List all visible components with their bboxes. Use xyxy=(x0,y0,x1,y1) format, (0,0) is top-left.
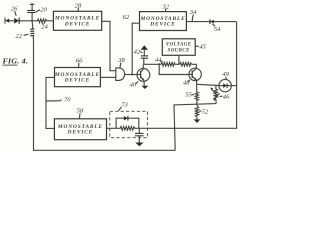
svg-text:VOLTAGE: VOLTAGE xyxy=(166,43,192,48)
transistor Q48 xyxy=(189,68,201,84)
svg-text:70: 70 xyxy=(64,97,71,104)
wire 66 output xyxy=(100,76,115,78)
svg-text:54: 54 xyxy=(214,26,221,33)
monostable device 66 xyxy=(54,68,101,87)
svg-text:62: 62 xyxy=(123,14,130,21)
wire gate output xyxy=(125,74,138,76)
resistor 52 xyxy=(195,105,198,119)
label 20 xyxy=(36,7,48,14)
svg-text:40: 40 xyxy=(130,81,137,88)
diode 54 xyxy=(210,19,214,24)
label 32 xyxy=(161,3,169,11)
svg-text:DEVICE: DEVICE xyxy=(67,130,93,136)
label 24 xyxy=(41,23,48,30)
wire 32 output xyxy=(186,21,236,23)
capacitor 20 xyxy=(27,3,35,21)
wire Q48 base xyxy=(159,64,189,74)
label 40 xyxy=(130,81,139,88)
wire into Q48 collector xyxy=(192,64,197,68)
label 28 xyxy=(75,2,82,11)
and gate 38 xyxy=(116,68,125,81)
node junction xyxy=(31,20,33,22)
svg-text:55: 55 xyxy=(185,92,192,99)
wire xyxy=(175,63,180,65)
wire xyxy=(47,20,54,22)
svg-text:38: 38 xyxy=(117,57,125,64)
voltage source 45 xyxy=(162,39,195,56)
wire node row xyxy=(174,104,217,105)
inductor 22 xyxy=(30,21,34,42)
RC network 73 dashed box xyxy=(110,111,148,137)
svg-text:22: 22 xyxy=(15,33,22,40)
label 48 xyxy=(183,80,190,87)
svg-text:44: 44 xyxy=(155,56,162,63)
supply arrow 42 xyxy=(141,45,148,55)
diode 73 branch xyxy=(116,116,139,128)
wire 66 input xyxy=(46,77,55,128)
label 26 xyxy=(11,6,18,16)
wire collector row 44 xyxy=(144,63,161,65)
label 22 xyxy=(15,33,28,40)
label 46 xyxy=(220,94,230,101)
label 52 xyxy=(199,109,209,116)
svg-text:52: 52 xyxy=(202,109,209,116)
svg-text:DEVICE: DEVICE xyxy=(149,22,175,28)
label 44 xyxy=(155,56,163,63)
svg-text:73: 73 xyxy=(121,101,128,108)
capacitor 42 xyxy=(141,56,148,64)
svg-text:DEVICE: DEVICE xyxy=(64,21,90,27)
monostable device 58 xyxy=(54,119,106,140)
wire xyxy=(9,20,14,22)
label 45 xyxy=(196,44,207,51)
label 42 xyxy=(134,48,143,55)
wire 32 input from node 62 xyxy=(132,23,139,74)
resistor 24 xyxy=(37,19,46,23)
node junction xyxy=(158,63,160,65)
monostable device 28 xyxy=(53,11,101,30)
ground xyxy=(194,119,201,123)
label 49 xyxy=(222,71,229,79)
ground xyxy=(135,143,143,147)
thermistor 46 xyxy=(210,85,219,103)
Fig. 4 label xyxy=(3,57,29,66)
label 73 xyxy=(118,101,128,111)
label 58 xyxy=(77,108,84,119)
svg-text:DEVICE: DEVICE xyxy=(64,78,90,84)
label 55 xyxy=(185,92,194,99)
svg-text:24: 24 xyxy=(41,23,48,30)
label 54 xyxy=(212,24,221,33)
ground xyxy=(142,86,149,89)
svg-text:SOURCE: SOURCE xyxy=(168,48,190,53)
input terminal xyxy=(5,18,9,24)
node junction xyxy=(131,74,133,76)
label 38 xyxy=(117,57,125,68)
label 66 xyxy=(76,57,83,67)
svg-text:FIG. 4.: FIG. 4. xyxy=(3,57,29,66)
svg-text:20: 20 xyxy=(40,7,47,14)
label 34 xyxy=(189,9,197,21)
resistor 44a xyxy=(161,63,175,67)
capacitor 73 xyxy=(135,128,144,142)
photodiode 49 xyxy=(219,79,237,91)
label 70 xyxy=(46,97,71,104)
wire xyxy=(20,20,38,22)
diode 26 xyxy=(14,18,19,24)
wire 28 output xyxy=(102,21,116,70)
wire left bus xyxy=(34,42,176,150)
wire riser to node row xyxy=(174,105,176,150)
wire Q48 emitter row xyxy=(197,84,219,85)
resistor 73 xyxy=(116,127,139,131)
monostable device 32 xyxy=(139,12,186,31)
svg-text:46: 46 xyxy=(223,94,230,101)
svg-text:45: 45 xyxy=(199,44,206,51)
wire right bus xyxy=(147,22,236,129)
wire voltage source drop xyxy=(178,55,180,64)
wire 73 output row xyxy=(139,127,148,129)
resistor 55 xyxy=(195,84,198,105)
resistor 44b xyxy=(180,63,192,67)
wire 58 output xyxy=(107,127,117,129)
transistor Q40 xyxy=(137,64,150,85)
